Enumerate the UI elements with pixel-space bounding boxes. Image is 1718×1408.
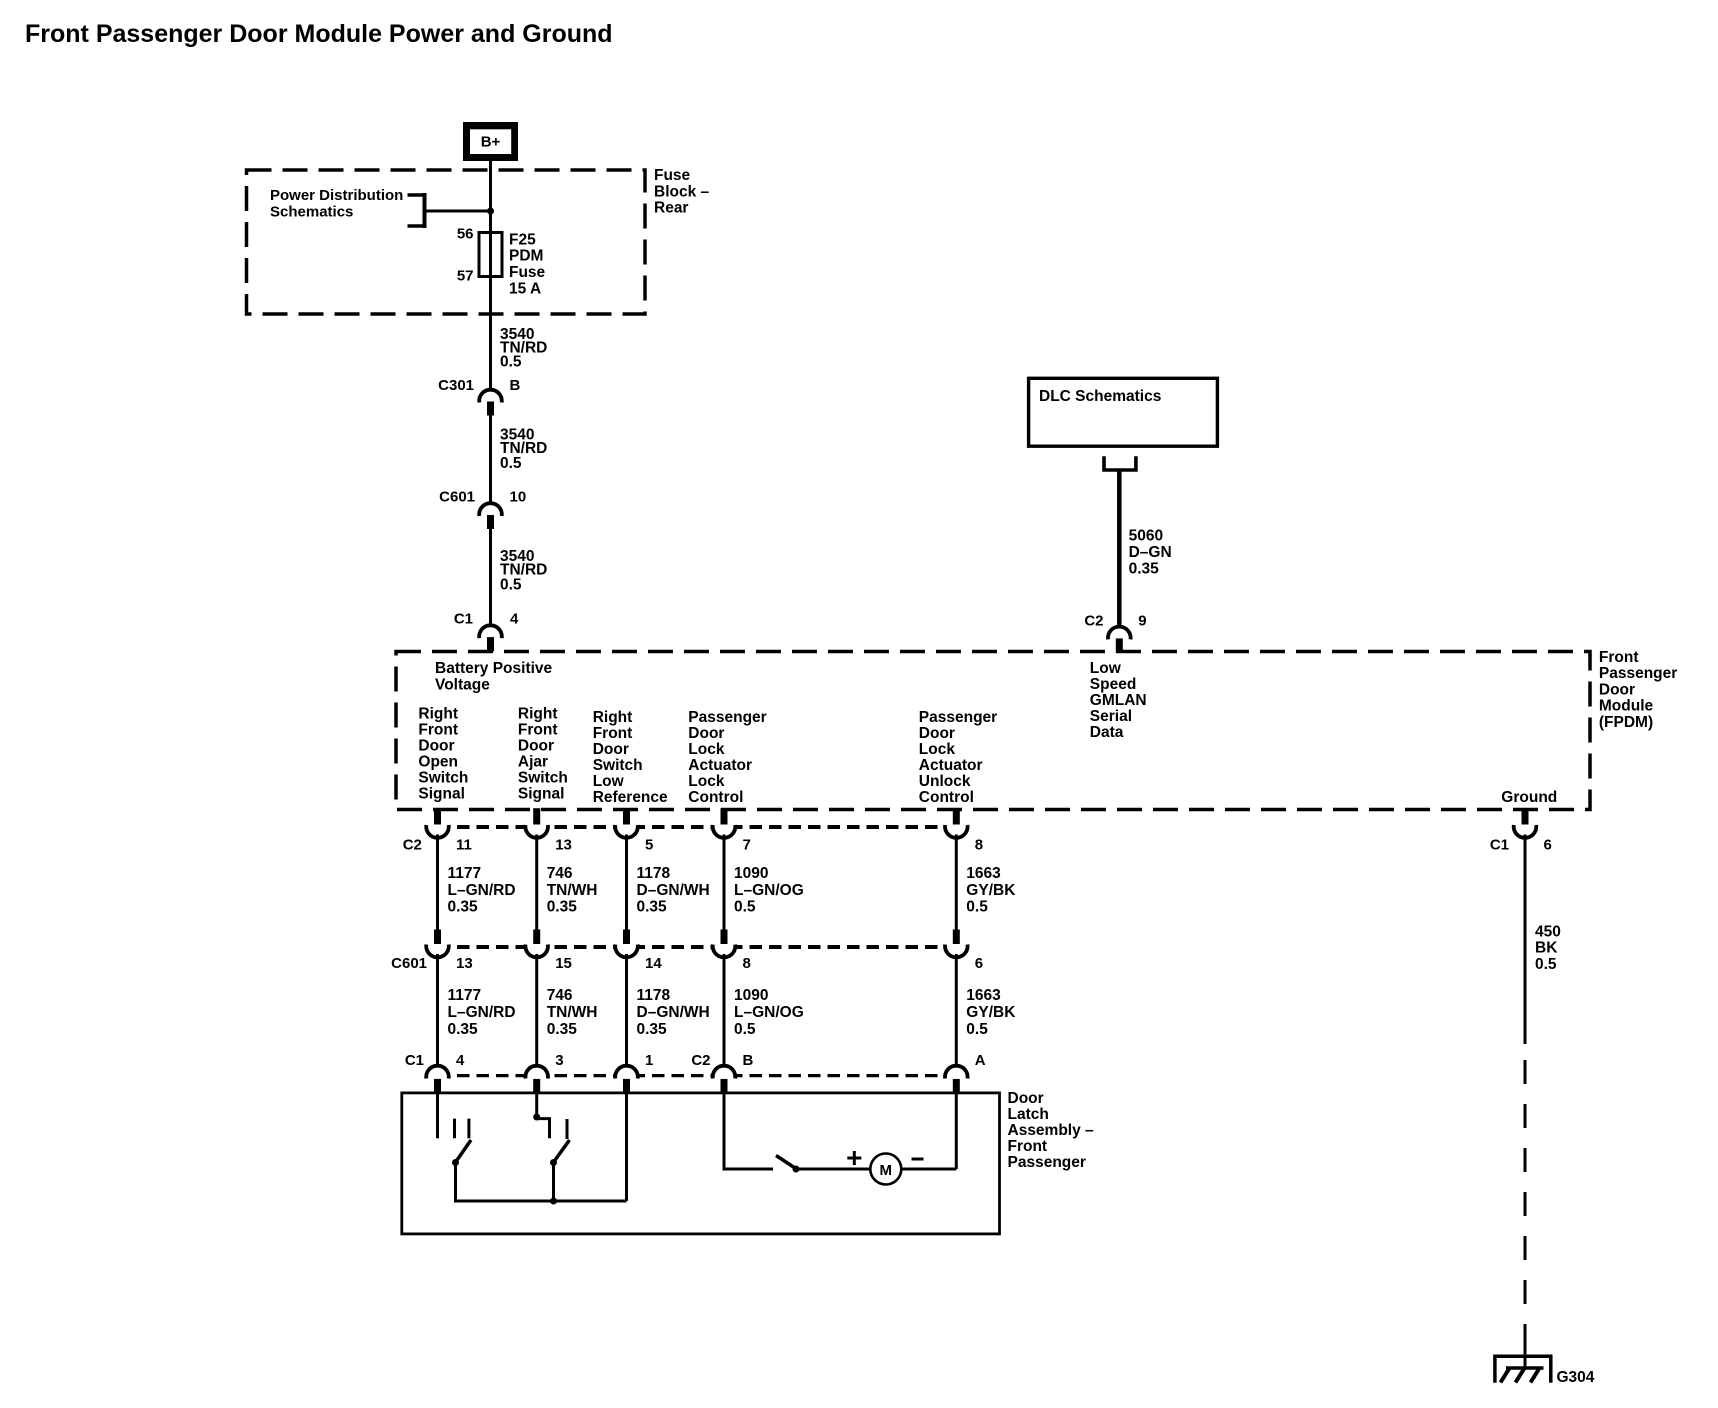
label Door Latch Assembly - Front Passenger: [1008, 1090, 1095, 1171]
svg-text:0.5: 0.5: [1535, 956, 1557, 973]
svg-text:Switch: Switch: [518, 770, 568, 787]
svg-text:56: 56: [457, 226, 474, 243]
svg-text:Ajar: Ajar: [518, 754, 548, 771]
svg-text:Rear: Rear: [654, 200, 688, 217]
wire label 3540 TN/RD 0.5 (3): [500, 548, 547, 594]
svg-text:C2: C2: [403, 837, 422, 854]
svg-text:6: 6: [975, 955, 983, 972]
svg-text:0.35: 0.35: [448, 899, 479, 916]
door latch assembly box: [402, 1093, 1000, 1234]
svg-text:4: 4: [510, 611, 519, 628]
door open switch S1: [452, 1119, 471, 1166]
svg-text:4: 4: [456, 1052, 465, 1069]
wire label 450 BK 0.5: [1535, 924, 1561, 974]
lock actuator switch blade: [776, 1156, 800, 1173]
svg-text:M: M: [880, 1162, 893, 1179]
fuse block rear (dashed box): [247, 170, 646, 314]
svg-text:Door: Door: [1599, 681, 1635, 698]
svg-text:GY/BK: GY/BK: [966, 882, 1016, 899]
label Ground: [1501, 789, 1557, 806]
wire switch to motor: [796, 1168, 871, 1171]
svg-text:11: 11: [456, 837, 472, 854]
wires C2 row to C601 row: [438, 835, 957, 930]
svg-text:Passenger: Passenger: [688, 709, 766, 726]
svg-text:15 A: 15 A: [509, 280, 541, 297]
wire fuse to C301: [489, 277, 492, 391]
svg-text:Speed: Speed: [1090, 676, 1137, 693]
wire DLC to C2: [1117, 470, 1122, 627]
door ajar switch S2: [537, 1119, 570, 1166]
svg-text:0.35: 0.35: [448, 1021, 479, 1038]
svg-text:Door: Door: [1008, 1090, 1044, 1107]
svg-text:C601: C601: [439, 489, 475, 506]
svg-text:Signal: Signal: [518, 786, 565, 803]
svg-text:Control: Control: [919, 789, 974, 806]
svg-text:Fuse: Fuse: [509, 264, 546, 281]
svg-text:Door: Door: [688, 725, 724, 742]
svg-text:Fuse: Fuse: [654, 167, 691, 184]
svg-text:Door: Door: [418, 738, 454, 755]
svg-text:Passenger: Passenger: [1599, 665, 1677, 682]
label Battery Positive Voltage: [435, 660, 553, 694]
svg-text:Reference: Reference: [593, 789, 668, 806]
label Power Distribution Schematics: [270, 187, 403, 221]
connector C301 pin B: [438, 377, 520, 416]
svg-text:0.35: 0.35: [637, 899, 668, 916]
wire S2 to common: [552, 1163, 555, 1202]
svg-text:5: 5: [645, 837, 653, 854]
svg-text:Module: Module: [1599, 698, 1654, 715]
connector row C601 pins and arcs: [426, 930, 967, 958]
wire S1 to common: [454, 1163, 457, 1203]
svg-text:Block –: Block –: [654, 183, 710, 200]
motor M (lock actuator): [870, 1154, 901, 1185]
row dashed line C2: [438, 825, 957, 829]
svg-text:0.35: 0.35: [547, 1021, 578, 1038]
svg-text:0.5: 0.5: [500, 577, 522, 594]
svg-text:Lock: Lock: [688, 773, 725, 790]
svg-text:Schematics: Schematics: [270, 204, 353, 221]
wires C601 row to C1 row: [438, 954, 957, 1066]
svg-text:3: 3: [555, 1052, 563, 1069]
svg-text:746: 746: [547, 865, 573, 882]
svg-text:1177: 1177: [448, 987, 482, 1004]
connector C1 pin 4 (FPDM): [454, 611, 519, 652]
wire col2 into latch: [535, 1094, 538, 1115]
svg-text:10: 10: [510, 489, 527, 506]
svg-text:0.5: 0.5: [966, 1021, 988, 1038]
svg-text:Battery Positive: Battery Positive: [435, 660, 553, 677]
svg-text:C1: C1: [454, 611, 473, 628]
svg-text:Actuator: Actuator: [688, 757, 752, 774]
connector row C2 pins and arcs: [426, 808, 967, 838]
svg-text:B: B: [510, 377, 521, 394]
DLC connector bracket: [1104, 456, 1136, 470]
svg-text:Lock: Lock: [919, 741, 956, 758]
label Right Front Door Switch Low Reference: [593, 709, 668, 806]
svg-text:Actuator: Actuator: [919, 757, 983, 774]
svg-text:Latch: Latch: [1008, 1106, 1049, 1123]
svg-text:Ground: Ground: [1501, 789, 1557, 806]
svg-text:Signal: Signal: [418, 786, 465, 803]
svg-text:Door: Door: [518, 738, 554, 755]
label F25 PDM Fuse 15 A: [509, 231, 546, 297]
svg-text:1177: 1177: [448, 865, 482, 882]
pin numbers C2 row 11 13 5 7 8: [456, 837, 983, 854]
wire label 3540 TN/RD 0.5 (2): [500, 427, 547, 473]
svg-text:A: A: [975, 1052, 986, 1069]
svg-text:Front: Front: [1599, 649, 1639, 666]
svg-text:8: 8: [743, 955, 751, 972]
svg-text:Door: Door: [919, 725, 955, 742]
svg-text:Right: Right: [418, 706, 458, 723]
label C2 row (latch): [691, 1052, 710, 1069]
svg-text:0.5: 0.5: [734, 1021, 756, 1038]
svg-text:Voltage: Voltage: [435, 677, 490, 694]
svg-text:Switch: Switch: [593, 757, 643, 774]
svg-text:0.5: 0.5: [734, 899, 756, 916]
DLC Schematics box: [1029, 378, 1218, 446]
svg-text:Control: Control: [688, 789, 743, 806]
label Passenger Door Lock Actuator Unlock Control: [919, 709, 997, 806]
svg-text:Front Passenger Door Module Po: Front Passenger Door Module Power and Gr…: [25, 20, 613, 48]
wire col4 to lock switch: [724, 1094, 773, 1169]
FPDM (dashed box): [396, 652, 1590, 810]
svg-text:13: 13: [456, 955, 473, 972]
node door ajar switch: [533, 1114, 540, 1121]
ground wire solid: [1524, 835, 1527, 1045]
svg-text:D–GN: D–GN: [1129, 544, 1172, 561]
svg-text:1: 1: [645, 1052, 653, 1069]
svg-text:0.35: 0.35: [637, 1021, 668, 1038]
svg-text:1663: 1663: [966, 865, 1001, 882]
svg-text:C2: C2: [691, 1052, 710, 1069]
svg-text:C2: C2: [1084, 612, 1103, 629]
wire C301 to C601: [489, 416, 492, 504]
svg-text:G304: G304: [1557, 1369, 1595, 1386]
label Passenger Door Lock Actuator Lock Control: [688, 709, 766, 806]
wire label 3540 TN/RD 0.5 (1): [500, 326, 547, 371]
pin numbers C601 row 13 15 14 8 6: [456, 955, 983, 972]
svg-text:Front: Front: [593, 725, 633, 742]
svg-text:Low: Low: [593, 773, 625, 790]
svg-text:Lock: Lock: [688, 741, 725, 758]
svg-text:14: 14: [645, 955, 662, 972]
title: [25, 20, 613, 48]
svg-text:Passenger: Passenger: [1008, 1154, 1086, 1171]
ground wire dashed: [1524, 1060, 1527, 1344]
wire labels circuits 1177 746 1178 1090 1663 (upper): [448, 865, 1017, 916]
label C1 row: [405, 1052, 424, 1069]
svg-text:Low: Low: [1090, 660, 1122, 677]
svg-text:C301: C301: [438, 377, 474, 394]
connector C601 pin 10: [439, 489, 526, 530]
connector row C1 C2 arcs and pins: [426, 1066, 967, 1093]
svg-text:13: 13: [555, 837, 572, 854]
svg-text:0.5: 0.5: [500, 354, 522, 371]
svg-text:TN/WH: TN/WH: [547, 1004, 598, 1021]
svg-text:8: 8: [975, 837, 983, 854]
svg-text:0.35: 0.35: [547, 899, 578, 916]
junction node switch common: [550, 1198, 557, 1205]
wire B+ to fuse F25: [489, 161, 492, 278]
svg-text:Unlock: Unlock: [919, 773, 971, 790]
svg-text:B: B: [743, 1052, 754, 1069]
svg-text:BK: BK: [1535, 940, 1558, 957]
svg-text:Front: Front: [418, 722, 458, 739]
connector C1 pin 6 (ground): [1490, 808, 1552, 853]
svg-text:57: 57: [457, 268, 474, 285]
svg-text:0.5: 0.5: [500, 455, 522, 472]
svg-text:F25: F25: [509, 231, 536, 248]
svg-text:L–GN/RD: L–GN/RD: [448, 882, 516, 899]
svg-text:15: 15: [555, 955, 572, 972]
svg-text:DLC Schematics: DLC Schematics: [1039, 388, 1161, 405]
junction node on B+ wire: [487, 208, 494, 215]
svg-text:450: 450: [1535, 924, 1561, 941]
svg-text:Right: Right: [518, 706, 558, 723]
wire label 5060 D-GN 0.35: [1129, 528, 1172, 578]
svg-text:9: 9: [1138, 612, 1146, 629]
svg-text:L–GN/RD: L–GN/RD: [448, 1004, 516, 1021]
svg-text:Door: Door: [593, 741, 629, 758]
svg-text:Assembly –: Assembly –: [1008, 1122, 1095, 1139]
svg-text:Right: Right: [593, 709, 633, 726]
svg-text:B+: B+: [481, 133, 501, 150]
label G304: [1557, 1369, 1595, 1386]
svg-text:Switch: Switch: [418, 770, 468, 787]
fuse F25 PDM 15 A: [457, 226, 502, 285]
wire C601 to C1: [489, 529, 492, 626]
svg-text:Serial: Serial: [1090, 708, 1132, 725]
svg-text:0.5: 0.5: [966, 899, 988, 916]
label Fuse Block - Rear: [654, 167, 710, 217]
switch common wire: [456, 1200, 627, 1203]
svg-text:0.35: 0.35: [1129, 561, 1160, 578]
svg-text:7: 7: [743, 837, 751, 854]
svg-text:Power Distribution: Power Distribution: [270, 187, 403, 204]
svg-text:6: 6: [1544, 837, 1552, 854]
battery positive terminal B+: [463, 122, 518, 161]
connector C2 pin 9 (FPDM): [1084, 612, 1146, 652]
svg-text:1178: 1178: [637, 865, 671, 882]
svg-text:Front: Front: [1008, 1138, 1048, 1155]
svg-text:PDM: PDM: [509, 248, 543, 265]
row dashed line C1 C2 (latch): [438, 1074, 957, 1077]
wire labels circuits 1177 746 1178 1090 1663 (lower): [448, 987, 1017, 1038]
svg-text:1090: 1090: [734, 865, 768, 882]
svg-text:GY/BK: GY/BK: [966, 1004, 1016, 1021]
svg-text:1178: 1178: [637, 987, 671, 1004]
svg-text:746: 746: [547, 987, 573, 1004]
svg-text:C1: C1: [405, 1052, 424, 1069]
label Low Speed GMLAN Serial Data: [1090, 660, 1147, 741]
svg-text:5060: 5060: [1129, 528, 1163, 545]
label C601 row: [391, 955, 427, 972]
wire col3 low reference: [625, 1094, 628, 1201]
svg-text:D–GN/WH: D–GN/WH: [637, 1004, 710, 1021]
svg-text:(FPDM): (FPDM): [1599, 714, 1653, 731]
pin numbers latch row 4 3 1 B A: [456, 1052, 986, 1069]
polarity minus: [912, 1158, 924, 1161]
svg-text:Front: Front: [518, 722, 558, 739]
power distribution bracket and branch wire: [408, 193, 491, 228]
svg-text:TN/WH: TN/WH: [547, 882, 598, 899]
row dashed line C601: [438, 945, 957, 949]
svg-text:GMLAN: GMLAN: [1090, 692, 1147, 709]
svg-text:1090: 1090: [734, 987, 768, 1004]
polarity plus: [847, 1151, 861, 1165]
wire col1 into latch: [436, 1094, 439, 1138]
label Front Passenger Door Module (FPDM): [1599, 649, 1677, 731]
wire motor to col5: [901, 1168, 956, 1171]
label C2 row: [403, 837, 422, 854]
svg-text:1663: 1663: [966, 987, 1001, 1004]
svg-text:Open: Open: [418, 754, 458, 771]
ground symbol G304: [1495, 1340, 1551, 1383]
svg-text:C601: C601: [391, 955, 427, 972]
svg-text:L–GN/OG: L–GN/OG: [734, 1004, 804, 1021]
svg-text:L–GN/OG: L–GN/OG: [734, 882, 804, 899]
svg-text:C1: C1: [1490, 837, 1509, 854]
svg-text:D–GN/WH: D–GN/WH: [637, 882, 710, 899]
wire col5 unlock control: [955, 1094, 958, 1169]
svg-text:Passenger: Passenger: [919, 709, 997, 726]
label Right Front Door Ajar Switch Signal: [518, 706, 568, 803]
svg-text:Data: Data: [1090, 724, 1124, 741]
label Right Front Door Open Switch Signal: [418, 706, 468, 803]
